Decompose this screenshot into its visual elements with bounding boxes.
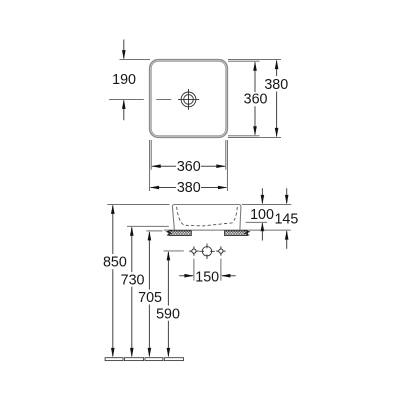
dimension 190 (plan left) [112,40,136,121]
svg-text:590: 590 [156,307,180,323]
svg-text:360: 360 [244,92,268,108]
break mark left [167,230,172,235]
drain hole (elevation) [199,244,215,260]
dimension 360 (plan bottom) [151,159,226,175]
svg-text:145: 145 [274,212,298,228]
dimension 850 (elevation left) [103,204,127,357]
extension lines (elevation) [107,203,169,205]
sealing pad right (hatched) [225,231,248,236]
basin inner contour (plan) [151,61,226,136]
fixing hole right (elevation) [216,246,225,255]
basin profile (elevation) [172,205,241,230]
svg-text:850: 850 [103,255,127,271]
floor tiles [105,358,183,361]
svg-text:150: 150 [195,270,219,286]
drain (plan): circles + crosshair [178,89,199,110]
extension lines (plan) [120,59,151,61]
svg-text:380: 380 [177,180,201,196]
dimension 380 (plan bottom) [150,180,228,196]
fixing hole left (elevation) [189,246,198,255]
basin outer contour (plan) [150,60,228,138]
break mark right [245,230,250,235]
dimension 150 (elevation bottom) [179,259,236,286]
dimension 380 (plan right) [264,60,288,138]
svg-text:705: 705 [138,290,162,306]
sealing pad left (hatched) [169,231,192,236]
inner bowl (dashed, elevation) [177,207,238,226]
drain centerline (plan) [109,98,171,100]
svg-text:190: 190 [112,72,136,88]
dimension 100 (elevation right) [250,188,274,240]
fixing holes centerline (elevation) [164,250,184,252]
svg-text:360: 360 [177,159,201,175]
countertop line (elevation) [146,229,290,232]
dimension 705 (elevation left) [138,231,162,358]
dimension 730 (elevation left) [121,226,145,357]
dimension 590 (elevation left) [156,251,180,358]
svg-text:100: 100 [250,207,274,223]
dimension 360 (plan right) [244,61,268,136]
svg-text:730: 730 [121,273,145,289]
dimension 145 (elevation right) [274,188,298,248]
svg-text:380: 380 [264,77,288,93]
